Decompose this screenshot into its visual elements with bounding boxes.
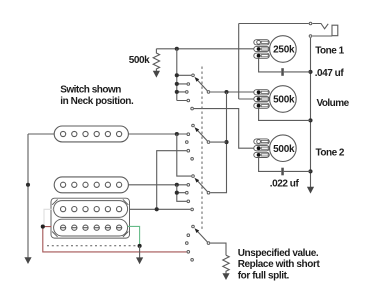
node junction mini bus throw3 (175, 191, 179, 195)
switch S1d blade (197, 231, 207, 242)
potentiometer VR1 Tone1 250k (270, 36, 297, 63)
node junction output bus S1b (224, 140, 228, 144)
potentiometer VR3 Tone2 500k (270, 135, 297, 162)
svg-text:500k: 500k (273, 95, 295, 106)
wire switch bus1 (177, 49, 191, 101)
potentiometer VR2 Volume 500k (270, 86, 297, 113)
svg-text:500k: 500k (273, 144, 295, 155)
VR3 lug2 (254, 146, 269, 151)
wire jack vertical to volume wiper (239, 24, 254, 100)
node junction middle pickup ground (26, 183, 30, 187)
switch S1d throws (186, 225, 195, 261)
capacitor C2 .022uf (281, 168, 284, 176)
resistor R2 unspecified (223, 255, 229, 273)
switch S1c throws (186, 175, 195, 211)
switch S1a common (207, 91, 210, 94)
node junction mid-throw2 (175, 183, 179, 187)
svg-text:Tone 2: Tone 2 (316, 148, 345, 159)
wire volume ground (259, 107, 311, 120)
ground arrow resistor R1 (153, 71, 160, 78)
wire resistor R1 to tone1 wiper (156, 48, 254, 50)
wire right ground bus (310, 38, 312, 187)
VR1 lug1 (254, 40, 269, 45)
svg-text:Switch shown: Switch shown (60, 84, 121, 95)
switch S1c common (207, 191, 210, 194)
wire jack tip feed (239, 23, 309, 25)
wire S1a common to volume top lug (210, 91, 254, 93)
humbucker bottom coil (54, 219, 128, 236)
switch S1c blade (197, 180, 207, 191)
svg-text:250k: 250k (273, 45, 295, 56)
node junction white-red series link (41, 225, 45, 229)
pickup neck single coil (54, 126, 128, 142)
switch S1d common (207, 242, 210, 245)
switch S1b blade (197, 130, 207, 141)
switch actuator dashed line (201, 67, 203, 231)
ground arrow resistor R2 (222, 273, 229, 280)
svg-text:in Neck position.: in Neck position. (60, 96, 134, 107)
jack J1 sleeve contact (309, 35, 312, 38)
switch S1b common (207, 141, 210, 144)
svg-text:500k: 500k (129, 55, 150, 66)
wire switch bus2 (177, 134, 191, 176)
node junction volume-ground (308, 118, 312, 122)
svg-text:Unspecified value.: Unspecified value. (238, 248, 319, 259)
wire mini bus S1c (177, 185, 187, 202)
VR2 lug3 (254, 103, 269, 108)
wire tone2 cap (259, 156, 311, 171)
node junction bus1 top (175, 47, 179, 51)
wire humbucker hot (130, 208, 191, 210)
VR2 lug1 (254, 90, 269, 95)
VR3 lug1 (254, 139, 269, 144)
wire humbucker red lead (43, 227, 187, 252)
svg-text:.022 uf: .022 uf (270, 179, 300, 190)
VR3 lug3 (254, 152, 269, 157)
node bus1 throw2 (175, 82, 179, 86)
wire S1d common to resistor R2 (210, 243, 226, 255)
svg-text:Volume: Volume (317, 98, 350, 109)
wire output bus vertical (210, 92, 226, 193)
wire S1a throw5 to tone2 wiper (194, 109, 254, 149)
pickup middle single coil (54, 177, 128, 193)
wire left ground bus (27, 134, 29, 257)
node junction output bus top (224, 90, 228, 94)
wire neck pickup hot (28, 133, 187, 135)
capacitor C1 .047uf (281, 68, 284, 76)
wire jack sleeve (312, 35, 332, 37)
ground arrow right bus (307, 187, 314, 194)
svg-text:.047 uf: .047 uf (315, 68, 345, 79)
wire S1b common to output bus (210, 141, 226, 143)
wire middle pickup hot (128, 184, 186, 186)
pot lugs group (254, 40, 269, 158)
pickup bridge humbucker body (51, 198, 130, 238)
svg-text:for full split.: for full split. (238, 271, 290, 282)
node bus1 throw1 (175, 73, 179, 77)
humbucker top coil (54, 201, 128, 218)
wire humbucker white lead (44, 209, 53, 226)
jack J1 body (332, 25, 338, 36)
VR1 lug3 (254, 53, 269, 58)
wire tone1 cap (259, 57, 311, 72)
ground arrow humbucker (136, 257, 143, 264)
wire S1b throw4 to humbucker hot (157, 151, 187, 210)
resistor R1 500k (153, 49, 159, 71)
switch S1a throws (186, 74, 195, 110)
node junction green-bare (138, 244, 142, 248)
ground arrow left bus (24, 257, 31, 264)
node junction cap1-ground (308, 70, 312, 74)
wire humbucker green lead (128, 226, 140, 246)
VR2 lug2 (254, 96, 269, 101)
humbucker screw slots (60, 227, 122, 229)
node junction humbucker hot (155, 207, 159, 211)
switch S1b throws (186, 124, 195, 160)
wire humbucker ground (139, 246, 141, 258)
VR1 lug2 (254, 46, 269, 51)
svg-text:Replace with short: Replace with short (238, 259, 321, 270)
jack J1 tip contact (309, 22, 312, 25)
switch S1a blade (197, 80, 207, 91)
node bus1 throw3 (175, 90, 179, 94)
svg-text:Tone 1: Tone 1 (315, 45, 344, 56)
jack J1 tip spring (312, 24, 328, 29)
node junction neck-bus2 (175, 132, 179, 136)
node junction cap2-ground (308, 169, 312, 173)
wire humbucker bare lead dashed (47, 245, 140, 247)
